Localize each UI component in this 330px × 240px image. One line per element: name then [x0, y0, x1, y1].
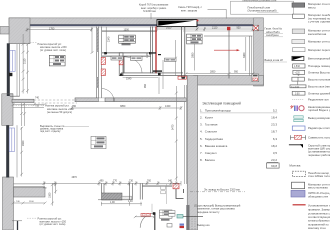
label E right side [264, 58, 288, 62]
arm wall from left mid block [12, 99, 34, 102]
svg-text:1,90: 1,90 [110, 201, 115, 204]
room info table bottom room [91, 136, 106, 148]
svg-text:3130: 3130 [23, 58, 26, 64]
legend item 20 violet box [291, 190, 330, 198]
svg-text:Монтаж:: Монтаж: [289, 164, 301, 168]
kitchen inner wall face line [102, 30, 157, 32]
dim under bottom walls [101, 202, 142, 206]
label block B top [178, 5, 226, 18]
legend item 5 white [293, 48, 330, 52]
table rows [200, 108, 278, 162]
dim line top left room [26, 28, 94, 32]
svg-text:Отметка уровней: Отметка уровней [308, 91, 330, 95]
svg-text:4970: 4970 [72, 176, 78, 179]
red-x box on top right band [253, 25, 259, 31]
wall inner face line lower [16, 125, 18, 177]
dim bathroom vertical [162, 60, 164, 89]
svg-text:облицовки стен: облицовки стен [308, 194, 329, 198]
label block A top [139, 3, 168, 19]
horizontal wall below upper rooms [75, 98, 186, 102]
navy stub at bottom edge [17, 221, 19, 231]
SMALL TABLES IN ROOMS [49, 34, 202, 148]
wall left stub [0, 27, 9, 35]
svg-text:2600: 2600 [22, 140, 25, 146]
dim along band left [175, 86, 178, 181]
wall left thick bar lower [6, 125, 9, 177]
window line right room [183, 30, 254, 32]
svg-text:передана по месту: передана по месту [197, 211, 220, 214]
white box on band bottom corner [252, 74, 259, 82]
corner dots closet [104, 52, 106, 54]
svg-text:h=2200 мм: h=2200 мм [143, 9, 156, 13]
leader line from teal box [183, 215, 203, 217]
closet area label box [111, 56, 123, 60]
svg-text:8.: 8. [200, 158, 203, 162]
wall bottom of right room [194, 76, 264, 86]
red box on wall A lower [101, 69, 105, 76]
interior wall A [97, 27, 107, 99]
svg-text:черновых работах): черновых работах) [308, 153, 330, 157]
small panel box right of door [167, 224, 172, 228]
svg-text:3080: 3080 [192, 52, 195, 58]
svg-text:3850: 3850 [120, 105, 126, 108]
wall inner face line top [30, 26, 254, 28]
svg-text:23,2: 23,2 [271, 158, 277, 162]
svg-text:Ванная комната: Ванная комната [205, 144, 228, 148]
dim verticals left [12, 34, 47, 204]
wall D right room left wall [182, 27, 185, 79]
dim beside wall A [91, 27, 93, 53]
svg-text:750: 750 [72, 105, 77, 108]
svg-text:стен 120мм толщ.: стен 120мм толщ. [308, 174, 330, 178]
svg-text:Прихожая/коридор: Прихожая/коридор [205, 108, 232, 112]
dashed balcony opening line [34, 100, 77, 103]
svg-text:1340: 1340 [165, 105, 171, 108]
svg-text:(от уровня чист. пола): (от уровня чист. пола) [40, 222, 66, 226]
band edge lines lower [185, 85, 187, 184]
svg-text:770: 770 [113, 180, 118, 183]
PLAN AREA [0, 18, 264, 230]
svg-text:960: 960 [144, 83, 147, 88]
svg-text:490: 490 [100, 180, 105, 183]
svg-text:18,2: 18,2 [271, 144, 277, 148]
svg-text:340: 340 [168, 180, 173, 183]
red relocation arrow right room [214, 49, 240, 51]
wall left thick bar upper [7, 43, 10, 96]
svg-text:Высота окон (низ): Высота окон (низ) [308, 84, 330, 88]
red box at bottom door [141, 213, 151, 216]
svg-text:(не менее 50 допуск): (не менее 50 допуск) [47, 110, 72, 114]
wall left corner block [9, 18, 30, 44]
svg-text:760: 760 [147, 180, 152, 183]
door arc wall A lower [102, 89, 115, 102]
svg-text:горячей Воды и др.: горячей Воды и др. [308, 108, 330, 112]
bathroom area label box [165, 58, 177, 61]
red dot at vent box right [197, 20, 199, 22]
svg-text:2340: 2340 [108, 36, 111, 42]
svg-text:1650: 1650 [166, 26, 172, 29]
label G left lower [13, 104, 74, 114]
bar at bathroom bottom [153, 70, 162, 71]
wall left bottom block [3, 177, 14, 230]
dim left of wall D [175, 40, 177, 76]
legend item 17 hidden corner [289, 143, 330, 157]
label D right side [255, 27, 283, 37]
closet top wall double line [102, 53, 150, 56]
svg-text:950: 950 [237, 26, 242, 29]
bottom walls cluster [98, 184, 184, 201]
door arc closet [124, 57, 142, 73]
interior wall C vertical [151, 27, 153, 74]
note box C top right [231, 0, 294, 14]
label F left room [30, 42, 67, 52]
svg-text:Разделение зон: Разделение зон [308, 97, 329, 101]
dim verticals near door [152, 184, 167, 213]
TABLE [200, 102, 279, 169]
svg-text:4.: 4. [200, 130, 203, 134]
legend item 4 dotted [292, 40, 330, 44]
svg-text:Гардеробная: Гардеробная [205, 137, 224, 141]
svg-text:7.: 7. [200, 151, 203, 155]
svg-text:3.00: 3.00 [295, 93, 300, 95]
red box at wall D bottom [178, 76, 186, 79]
svg-text:(от уровня чист. пола): (от уровня чист. пола) [40, 48, 66, 52]
door arc bottom [140, 213, 154, 228]
svg-text:18,7: 18,7 [271, 130, 277, 134]
svg-text:5,2: 5,2 [273, 108, 278, 112]
dark wall bar bottom of band [186, 205, 189, 230]
wall inner face lines upper [17, 44, 20, 96]
svg-text:Санузел: Санузел [205, 151, 217, 155]
wall top band [9, 18, 263, 24]
blue red stack [180, 224, 185, 226]
svg-text:1540: 1540 [146, 52, 149, 58]
svg-text:(Установка конструкций): (Установка конструкций) [248, 9, 277, 13]
legend item 6 vent wedge [292, 56, 330, 60]
legend item 1 material gray [292, 2, 330, 9]
svg-text:950: 950 [234, 71, 239, 74]
interior wall B [119, 53, 123, 76]
svg-text:1,40: 1,40 [128, 200, 133, 203]
svg-text:5.: 5. [200, 137, 203, 141]
BOTTOM CENTER DETAILS [134, 184, 203, 230]
svg-text:hн=1500: hн=1500 [291, 86, 300, 88]
svg-text:Экспликация помещений: Экспликация помещений [202, 102, 241, 106]
svg-text:Гостиная: Гостиная [205, 123, 218, 127]
legend item 3 light gray [292, 29, 330, 36]
legend item 15 radiator [292, 126, 330, 130]
svg-text:Радиаторы отопления: Радиаторы отопления [308, 126, 330, 130]
wall jog at left mid [7, 94, 20, 96]
room table bottom hallway [160, 210, 173, 221]
svg-text:6.: 6. [200, 144, 203, 148]
wall vertical band going down right of living area [187, 76, 197, 231]
dim under corridor wall [123, 76, 158, 78]
svg-text:1.532: 1.532 [294, 66, 300, 68]
teal outlet box [177, 215, 183, 219]
svg-text:23,3: 23,3 [271, 123, 277, 127]
long dim line above bottom walls [43, 181, 182, 186]
svg-text:2.: 2. [200, 116, 203, 120]
legend item 18 dashed foam block [292, 171, 330, 178]
svg-text:1500: 1500 [49, 192, 52, 198]
svg-text:Пеноблочная установка стен: Пеноблочная установка стен [242, 0, 277, 2]
LEGEND [289, 2, 330, 230]
svg-text:+120: +120 [295, 73, 301, 75]
svg-text:1540: 1540 [126, 77, 132, 80]
svg-text:5470: 5470 [172, 124, 175, 130]
red box on wall A upper [101, 58, 105, 65]
RED ACCENTS [214, 25, 259, 81]
svg-text:Вентиляционный короб: Вентиляционный короб [308, 57, 330, 61]
room info table kitchen [119, 35, 136, 45]
svg-text:вент. зазором: вент. зазором [181, 9, 197, 12]
svg-text:Балкон: Балкон [205, 158, 215, 162]
svg-text:Эл. вывод на Высоте 2200 мм.: Эл. вывод на Высоте 2200 мм. [204, 188, 241, 192]
window W1 [10, 50, 15, 71]
balcony threshold dot [9, 73, 12, 76]
right room inner wall face lines [249, 36, 252, 76]
svg-text:с учетом отделки: с учетом отделки [308, 20, 330, 24]
bar in bathroom upper [152, 52, 157, 53]
svg-text:Вывод эл-ва off: Вывод эл-ва off [265, 58, 284, 62]
dim lines inside right room [185, 37, 255, 75]
svg-text:Высота потолков: Высота потолков [308, 77, 330, 81]
legend item 13 risers colored [291, 105, 330, 112]
legend item 2 white box [293, 13, 330, 23]
tiny dimension numbers [16, 26, 246, 204]
label I bottom right dashed [190, 188, 245, 192]
label H bottom left [27, 217, 67, 226]
svg-text:3,5: 3,5 [273, 151, 278, 155]
svg-text:2850: 2850 [210, 71, 216, 74]
svg-text:1100: 1100 [29, 201, 34, 203]
svg-text:730: 730 [129, 180, 134, 183]
elements below band bottom [192, 216, 195, 230]
legend item 14 teal double [294, 116, 330, 122]
DIMENSIONS AND ANNOTATIONS [12, 27, 255, 206]
svg-text:1.: 1. [200, 108, 203, 112]
small panel boxes [169, 211, 176, 214]
svg-text:Вывод низ.: Вывод низ. [197, 223, 210, 227]
svg-text:2120: 2120 [212, 26, 218, 29]
svg-text:Площадь помещения: Площадь помещения [308, 64, 330, 68]
red riser line at vent box [155, 27, 157, 74]
svg-text:18,4: 18,4 [271, 116, 277, 120]
room info table right room [187, 34, 203, 44]
corridor bottom wall horizontal [121, 73, 187, 76]
svg-text:под чист. отделку: под чист. отделку [40, 130, 61, 133]
legend item 7 area box [293, 64, 330, 68]
svg-text:3080: 3080 [243, 52, 246, 58]
svg-text:1300: 1300 [124, 28, 130, 31]
legend item 21 red line note [293, 204, 330, 231]
svg-text:Материал перегор.: Материал перегор. [308, 48, 330, 52]
svg-text:Кухня: Кухня [205, 116, 213, 120]
svg-text:99,8: 99,8 [271, 164, 277, 168]
wall left mid block [2, 94, 13, 126]
svg-text:710: 710 [35, 105, 40, 108]
tiny outlet marks left of band [161, 187, 166, 190]
svg-text:Материал стен сущ.: Материал стен сущ. [308, 40, 330, 44]
dim under horizontal wall [71, 106, 183, 110]
door dim line bottom [134, 216, 156, 218]
red box on wall B [119, 57, 123, 65]
label F2 mid room [40, 124, 89, 133]
legend item 12 dotted line [292, 97, 329, 101]
wall right band [254, 18, 264, 86]
dim line top right rooms [157, 27, 255, 31]
wall arm from left bottom block [14, 188, 46, 198]
room info table left room [49, 55, 65, 66]
legend item 11 level box [292, 91, 330, 95]
legend item 8 elevation box [293, 70, 330, 76]
partition line in right room [204, 29, 253, 79]
legend item 10 window height [290, 82, 330, 89]
svg-text:3.: 3. [200, 123, 203, 127]
svg-text:монтажу стен: монтажу стен [308, 226, 326, 230]
black junction on corridor wall [158, 73, 161, 76]
svg-text:Совместить полотна: Совместить полотна [308, 136, 330, 140]
window W2 [9, 128, 14, 152]
label J bottom right [194, 203, 241, 213]
door leaf bottom [154, 213, 156, 230]
svg-text:740: 740 [35, 96, 40, 99]
svg-text:месту.: месту. [308, 5, 316, 9]
red square on top dim [227, 27, 230, 30]
svg-text:месту монтажа: месту монтажа [308, 186, 328, 190]
svg-text:Вывод коммуникаций: Вывод коммуникаций [308, 116, 330, 120]
legend item 9 split box [292, 77, 330, 81]
svg-text:1780: 1780 [49, 27, 55, 30]
svg-text:железобетона: железобетона [308, 32, 327, 36]
wall face lines above arm [14, 184, 46, 186]
svg-text:Отметка Высоты пола: Отметка Высоты пола [308, 71, 330, 75]
svg-text:6,3: 6,3 [273, 137, 278, 141]
dim vertical in bottom room [51, 183, 57, 206]
table total box [267, 163, 280, 168]
legend item 16 red hatch combine [291, 135, 330, 139]
wall top navy line [18, 24, 253, 26]
corridor area label box [131, 56, 143, 60]
legend item 19 white box [292, 182, 330, 189]
svg-text:Спальня: Спальня [205, 130, 217, 134]
vent duct box [157, 20, 197, 27]
